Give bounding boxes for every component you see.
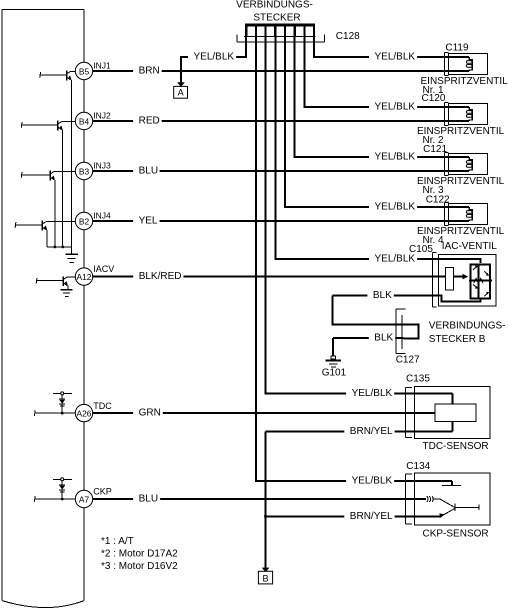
label YEL/BLK inj3 [369, 152, 417, 163]
CKP pickup internals [427, 481, 480, 518]
svg-text:YEL/BLK: YEL/BLK [352, 476, 393, 487]
label Nr. 4 [423, 235, 445, 246]
wire BLK/RED (A12 to IAC) [92, 276, 445, 278]
label EINSPRITZVENTIL 2 [417, 126, 505, 137]
label VERBINDUNGS-STECKER [236, 0, 313, 23]
label C119 [445, 43, 469, 54]
svg-text:BLU: BLU [139, 166, 158, 177]
svg-text:A26: A26 [77, 409, 92, 419]
svg-text:STECKER B: STECKER B [429, 334, 486, 345]
wire GRN (A26 to TDC sensor) [92, 412, 435, 414]
joint connector C127 [396, 309, 419, 354]
diode clamp TDC input clamp [34, 392, 75, 416]
transistor Q4 (INJ4 driver) [15, 221, 75, 247]
wire C128 pin8 to injector 1 (YEL/BLK) [314, 37, 469, 57]
svg-text:BLK/RED: BLK/RED [139, 271, 182, 282]
label BLK (C127) [369, 332, 395, 343]
svg-text:C135: C135 [406, 374, 430, 385]
pin label IACV [93, 264, 114, 274]
label C134 [406, 461, 430, 472]
pin label CKP [93, 487, 112, 497]
svg-text:A12: A12 [77, 272, 92, 282]
svg-text:TDC: TDC [93, 401, 112, 411]
svg-text:STECKER: STECKER [253, 12, 300, 23]
svg-text:YEL/BLK: YEL/BLK [375, 152, 416, 163]
label YEL/BLK inj2 [369, 102, 417, 113]
svg-text:B5: B5 [79, 66, 90, 76]
ground (IACV driver) [61, 290, 73, 297]
wire to sheet B [262, 432, 270, 573]
notes [101, 536, 178, 572]
ECM pin A12 [75, 268, 92, 285]
injector solenoid EINSPRITZVENTIL Nr. 2 [444, 103, 487, 126]
ECM pin B3 [75, 162, 92, 179]
diode clamp CKP input clamp [34, 478, 75, 502]
label C120 [422, 93, 446, 104]
pin label INJ3 [93, 160, 111, 170]
wire BLU (ECM B3 to injector 3) [92, 170, 469, 172]
connector C128 socket outline [237, 35, 325, 43]
label YEL/BLK (to A) [188, 52, 236, 63]
svg-text:*1 : A/T: *1 : A/T [101, 536, 134, 547]
junction pin1/BRN [179, 69, 182, 72]
wire YEL (ECM B2 to injector 4) [92, 220, 469, 222]
wire BLU (A7 to CKP sensor) [92, 498, 426, 500]
svg-text:CKP: CKP [93, 487, 112, 497]
ground (injector drivers) [65, 254, 78, 262]
svg-text:VERBINDUNGS-: VERBINDUNGS- [236, 0, 313, 11]
ECM pin B2 [75, 212, 92, 229]
label Nr. 3 [423, 185, 445, 196]
transistor Q5 (IACV driver) [36, 276, 75, 289]
junction BRN/YEL common [264, 515, 267, 518]
wire BLK (G101 to C127) [333, 338, 404, 356]
svg-text:YEL/BLK: YEL/BLK [375, 102, 416, 113]
ECM pin B5 [75, 62, 92, 79]
svg-text:GRN: GRN [139, 408, 161, 419]
svg-text:B2: B2 [79, 216, 90, 226]
label YEL/BLK CKP [346, 476, 394, 487]
svg-text:INJ3: INJ3 [93, 160, 111, 170]
label EINSPRITZVENTIL 1 [421, 76, 508, 87]
svg-text:BRN: BRN [139, 66, 160, 77]
svg-text:INJ4: INJ4 [93, 210, 111, 220]
svg-text:IACV: IACV [93, 264, 114, 274]
CKP sensor connector C134 and case [406, 473, 490, 525]
label VERBINDUNGS-STECKER B [429, 321, 506, 346]
svg-text:BLK: BLK [373, 290, 392, 301]
label C135 [406, 374, 430, 385]
label BRN/YEL TDC [344, 426, 394, 437]
svg-text:C121: C121 [423, 144, 447, 155]
label BLU CKP [133, 494, 160, 505]
label BLU [133, 166, 160, 177]
injector solenoid EINSPRITZVENTIL Nr. 4 [444, 203, 487, 226]
node emitter common rail [47, 246, 71, 255]
pin label INJ4 [93, 210, 111, 220]
IAC valve connector C105 bracket and case [433, 252, 497, 307]
svg-text:INJ2: INJ2 [93, 110, 111, 120]
label YEL/BLK IAC [369, 254, 417, 265]
label GRN [133, 408, 163, 419]
label EINSPRITZVENTIL 3 [417, 176, 505, 187]
wire C128 pin5 to injector 4 (YEL/BLK) [285, 37, 469, 207]
label TDC-SENSOR [423, 441, 489, 452]
wire C128 pin7 to injector 2 (YEL/BLK) [304, 37, 469, 107]
wire C128 pin3 to TDC sensor (YEL/BLK) [266, 37, 453, 394]
svg-text:BRN/YEL: BRN/YEL [350, 511, 393, 522]
svg-text:G101: G101 [322, 367, 347, 378]
svg-text:*2 : Motor D17A2: *2 : Motor D17A2 [101, 549, 178, 560]
transistor Q3 (INJ3 driver) [21, 171, 75, 247]
svg-text:*3 : Motor D16V2: *3 : Motor D16V2 [101, 561, 178, 572]
wire C128 pin6 to injector 3 (YEL/BLK) [295, 37, 469, 157]
wire BRN/YEL (CKP sensor) [266, 515, 441, 517]
label C128 [336, 31, 360, 42]
sheet arrow box B [258, 571, 272, 584]
label RED [133, 116, 162, 127]
wire C128 pin1 to sheet A (YEL/BLK) [177, 37, 246, 87]
wire RED (ECM B4 to injector 2) [92, 120, 469, 122]
svg-text:C127: C127 [396, 355, 420, 366]
TDC pickup coil [435, 393, 476, 431]
injector solenoid EINSPRITZVENTIL Nr. 3 [444, 153, 487, 176]
pin label TDC [93, 401, 112, 411]
pin label INJ1 [93, 60, 111, 70]
svg-text:A7: A7 [79, 494, 90, 504]
wire C128 pin2 to CKP sensor (YEL/BLK) [256, 37, 452, 481]
svg-text:B: B [262, 573, 268, 583]
label Nr. 2 [423, 135, 445, 146]
svg-text:TDC-SENSOR: TDC-SENSOR [423, 441, 489, 452]
label YEL/BLK TDC [346, 388, 394, 399]
pin label INJ2 [93, 110, 111, 120]
label IAC-VENTIL [442, 241, 497, 252]
ECM control module boundary [2, 10, 84, 608]
label Nr. 1 [423, 85, 445, 96]
svg-text:YEL/BLK: YEL/BLK [375, 202, 416, 213]
svg-text:CKP-SENSOR: CKP-SENSOR [423, 529, 489, 540]
label BLK/RED [133, 271, 183, 282]
svg-text:A: A [178, 88, 184, 98]
svg-text:YEL/BLK: YEL/BLK [352, 388, 393, 399]
label C121 [423, 144, 447, 155]
svg-text:C120: C120 [422, 93, 446, 104]
svg-text:YEL/BLK: YEL/BLK [375, 52, 416, 63]
svg-text:VERBINDUNGS-: VERBINDUNGS- [429, 321, 506, 332]
label BRN/YEL CKP [344, 511, 394, 522]
svg-text:INJ1: INJ1 [93, 60, 111, 70]
wire BLK (IAC to C127) [332, 295, 480, 324]
svg-text:C119: C119 [445, 43, 469, 54]
ECM pin A7 [75, 490, 92, 507]
transistor Q1 (INJ1 driver) [40, 71, 76, 247]
svg-text:B4: B4 [79, 116, 90, 126]
svg-text:YEL/BLK: YEL/BLK [375, 254, 416, 265]
label CKP-SENSOR [423, 529, 489, 540]
svg-text:B3: B3 [79, 166, 90, 176]
ECM pin A26 [75, 404, 92, 421]
sheet arrow box A [174, 86, 188, 98]
label YEL/BLK inj1 [369, 52, 417, 63]
transistor Q2 (INJ2 driver) [21, 121, 75, 247]
svg-text:YEL/BLK: YEL/BLK [194, 52, 235, 63]
svg-text:YEL: YEL [139, 216, 158, 227]
svg-text:BLU: BLU [139, 494, 158, 505]
wire BRN (ECM B5 to injector 1) [92, 70, 469, 72]
wire C128 pin4 to IAC valve (YEL/BLK) [275, 37, 480, 264]
label C122 [426, 194, 450, 205]
ECM pin B4 [75, 112, 92, 129]
svg-text:C128: C128 [336, 31, 360, 42]
svg-text:C134: C134 [406, 461, 430, 472]
injector solenoid EINSPRITZVENTIL Nr. 1 [444, 53, 487, 76]
label YEL [133, 216, 160, 227]
svg-text:IAC-VENTIL: IAC-VENTIL [442, 241, 497, 252]
label EINSPRITZVENTIL 4 [417, 226, 505, 237]
label C105 [409, 244, 433, 255]
IAC motor internals [446, 264, 492, 298]
label BLK (IAC) [367, 290, 393, 301]
svg-text:BLK: BLK [374, 332, 393, 343]
label YEL/BLK inj4 [369, 202, 417, 213]
joint connector C128 comb [245, 24, 315, 37]
wire BRN/YEL (TDC sensor) [266, 431, 453, 433]
svg-text:C105: C105 [409, 244, 433, 255]
svg-text:C122: C122 [426, 194, 450, 205]
label C127 [396, 355, 420, 366]
label G101 [322, 367, 347, 378]
label BRN [133, 66, 162, 77]
TDC sensor connector C135 and case [406, 386, 490, 438]
svg-text:RED: RED [139, 116, 160, 127]
svg-text:BRN/YEL: BRN/YEL [350, 426, 393, 437]
ground G101 [326, 356, 342, 367]
